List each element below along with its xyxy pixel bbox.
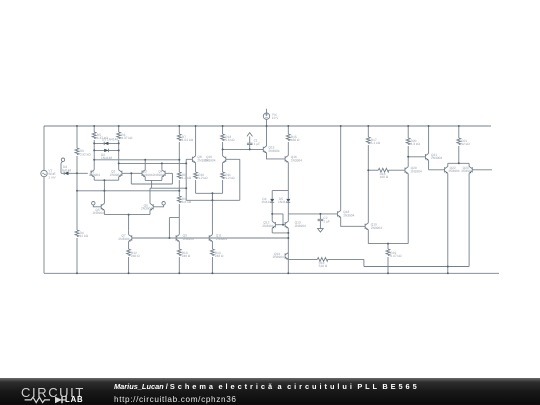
- diode D1: [94, 142, 119, 144]
- svg-text:1.2 kΩ: 1.2 kΩ: [225, 176, 235, 180]
- svg-text:0.47 kΩ: 0.47 kΩ: [390, 254, 402, 258]
- svg-text:2N3904: 2N3904: [343, 213, 354, 217]
- svg-text:2N3904: 2N3904: [89, 173, 100, 177]
- transistor Q4: [162, 170, 165, 177]
- resistor R21 top: [458, 126, 460, 138]
- transistor Q15: [263, 146, 266, 153]
- source V1: [41, 170, 47, 176]
- node VCC flag: [247, 133, 253, 137]
- transistor Q3: [142, 170, 145, 177]
- svg-text:1.2 kΩ: 1.2 kΩ: [182, 176, 192, 180]
- diode D4: [271, 191, 273, 199]
- transistor Q18: [338, 211, 341, 218]
- svg-text:12 kΩ: 12 kΩ: [461, 142, 470, 146]
- wire Q1 collector chain: [93, 143, 95, 170]
- wire D4 tap jog: [272, 214, 283, 225]
- svg-text:4.37 kΩ: 4.37 kΩ: [121, 136, 133, 140]
- diode D3: [61, 172, 88, 175]
- transistor Q12: [272, 221, 275, 228]
- transistor Q19: [365, 223, 368, 230]
- svg-text:1.01 kΩ: 1.01 kΩ: [182, 138, 194, 142]
- diode D5: [287, 191, 289, 199]
- wire Q16 emitter long drop: [287, 162, 289, 190]
- node junction dots interior: [76, 172, 78, 174]
- node junction dots top rail: [76, 125, 78, 127]
- svg-text:1 mV: 1 mV: [48, 175, 56, 179]
- svg-text:1.2 kΩ: 1.2 kΩ: [198, 176, 208, 180]
- wire R10 R11 bottom tie: [196, 193, 223, 200]
- transistor Q9: [176, 235, 179, 242]
- node VCO input port left: [92, 202, 95, 205]
- svg-text:2N3904: 2N3904: [371, 226, 382, 230]
- svg-text:2N3904: 2N3904: [118, 237, 129, 241]
- wire R9 jog to bias line: [169, 218, 179, 238]
- wire R9 to Q9 collector: [178, 218, 180, 235]
- wire bias line: [132, 237, 288, 239]
- wire Q6 collector: [149, 188, 151, 203]
- transistor Q10: [223, 156, 226, 163]
- svg-text:10 V: 10 V: [272, 116, 279, 120]
- resistor R6: [118, 126, 120, 132]
- svg-text:2N3904: 2N3904: [141, 173, 152, 177]
- wire Q3 collector: [144, 160, 146, 170]
- svg-text:2N3904: 2N3904: [411, 170, 422, 174]
- ground: [318, 229, 324, 232]
- transistor Q20: [405, 167, 408, 174]
- resistor R7: [178, 126, 180, 134]
- wire bottom ground rail: [44, 272, 499, 274]
- svg-text:5.6 kΩ: 5.6 kΩ: [225, 138, 235, 142]
- capacitor C2: [318, 214, 324, 229]
- svg-text:2N3904: 2N3904: [273, 255, 284, 259]
- wire pair collector bus: [448, 163, 469, 166]
- resistor R20 top: [407, 126, 409, 138]
- wire Q19 emitter: [368, 230, 408, 244]
- svg-text:2N3904: 2N3904: [204, 158, 215, 162]
- wire Q18 emitter to Q19 base: [341, 217, 365, 226]
- wire Q19 collector: [367, 170, 369, 223]
- resistor R10 Q8 emitter: [195, 163, 197, 172]
- capacitor C1: [247, 136, 253, 149]
- wire Q23 emitter drop: [467, 173, 470, 266]
- wire Q2 base to quad: [122, 172, 142, 174]
- resistor R8: [177, 172, 181, 179]
- svg-text:2N3904: 2N3904: [448, 169, 459, 173]
- wire Q11 collector: [211, 193, 213, 234]
- resistor R19: [387, 244, 389, 249]
- CircuitLab logo: [21, 385, 85, 400]
- wire Q23 base stub: [472, 169, 492, 171]
- wire to Q15 base: [223, 148, 264, 150]
- node IN port: [61, 158, 64, 161]
- wire quad output line: [150, 187, 186, 189]
- resistor R14 Q11 emitter: [211, 241, 213, 249]
- svg-text:1 µF: 1 µF: [323, 220, 329, 224]
- source V2 Vcc: [266, 109, 268, 126]
- wire Q18 collector to rail: [340, 126, 342, 211]
- transistor Q23: [469, 166, 472, 173]
- resistor R11 Q10 emitter: [222, 163, 224, 172]
- transistor Q8: [192, 156, 195, 163]
- wire Q20 emitter long drop: [407, 174, 409, 244]
- wire top supply rail: [44, 125, 491, 127]
- svg-text:2N3904: 2N3904: [461, 169, 472, 173]
- wire Q4 base cross jog: [131, 173, 172, 184]
- svg-text:2N3904: 2N3904: [93, 211, 104, 215]
- wire Q8 base drop: [186, 159, 192, 200]
- transistor Q13: [285, 221, 288, 228]
- wire Q21 base: [408, 156, 425, 158]
- resistor R5: [93, 126, 95, 132]
- svg-text:2N3904: 2N3904: [110, 173, 121, 177]
- svg-text:2N3904: 2N3904: [183, 237, 194, 241]
- svg-text:1N4148: 1N4148: [60, 168, 71, 172]
- wire R3 to R4: [76, 156, 78, 230]
- transistor Q14: [285, 253, 288, 260]
- resistor R4: [75, 230, 79, 237]
- wire Q1 Q2 emitter bus: [94, 177, 119, 191]
- wire Q12 Q13 base tie: [275, 224, 285, 226]
- resistor R16 horizontal: [317, 258, 327, 262]
- wire base return line: [186, 199, 240, 201]
- transistor Q7: [129, 235, 132, 242]
- svg-text:0.92 kΩ: 0.92 kΩ: [80, 152, 92, 156]
- resistor R12 Q7 emitter: [128, 241, 130, 249]
- svg-text:2N3904: 2N3904: [431, 156, 442, 160]
- wire Q12 Q13 emitter bus: [272, 228, 288, 253]
- node junction dots bottom rail: [76, 272, 78, 274]
- transistor Q16: [285, 156, 288, 163]
- diode D2: [94, 149, 119, 151]
- svg-text:5.1 kΩ: 5.1 kΩ: [371, 141, 381, 145]
- wire Q10 base jog: [226, 159, 240, 200]
- transistor Q21: [425, 153, 428, 160]
- svg-text:2N3904: 2N3904: [262, 224, 273, 228]
- svg-text:100 Ω: 100 Ω: [380, 175, 389, 179]
- wire phase output line: [288, 213, 337, 215]
- svg-text:4.3 kΩ: 4.3 kΩ: [411, 142, 421, 146]
- svg-text:240 Ω: 240 Ω: [215, 254, 224, 258]
- svg-text:1N4148: 1N4148: [278, 200, 289, 204]
- svg-text:510 Ω: 510 Ω: [319, 264, 328, 268]
- wire Q15 collector to rail: [266, 126, 268, 146]
- transistor Q11: [209, 235, 212, 242]
- svg-text:2N3904: 2N3904: [216, 237, 227, 241]
- svg-text:12 kΩ: 12 kΩ: [80, 234, 89, 238]
- wire Q14 emitter line: [288, 258, 317, 260]
- svg-text:6.8 kΩ: 6.8 kΩ: [182, 200, 192, 204]
- transistor Q6: [150, 203, 153, 210]
- wire Q21 collector to rail: [428, 126, 430, 153]
- wire Q4 collector: [161, 163, 163, 170]
- wire Q14 collector emitter drop: [287, 253, 289, 274]
- wire Q2 collector chain: [118, 143, 120, 170]
- resistor R9: [177, 196, 181, 203]
- svg-text:240 Ω: 240 Ω: [182, 254, 191, 258]
- transistor Q22: [445, 166, 448, 173]
- wire Q15 emitter to Q16 base: [267, 153, 286, 159]
- svg-text:240 Ω: 240 Ω: [131, 254, 140, 258]
- resistor R15 top: [287, 126, 289, 134]
- resistor R17 top: [367, 126, 369, 137]
- svg-text:2N3904: 2N3904: [141, 207, 152, 211]
- wire Q10 collector: [222, 149, 224, 156]
- wire node A collector line: [94, 159, 179, 161]
- svg-text:1N4148: 1N4148: [101, 156, 112, 160]
- wire Q22 emitter drop: [447, 173, 449, 273]
- wire Q13 collector: [287, 214, 289, 221]
- transistor Q5: [101, 203, 104, 210]
- resistor R13 Q9 emitter: [178, 241, 180, 249]
- wire Q5 collector: [103, 191, 105, 204]
- wire node B collector line: [119, 162, 187, 164]
- transistor Q2: [119, 170, 122, 177]
- svg-text:2N3904: 2N3904: [291, 158, 302, 162]
- wire Q7 collector: [128, 231, 130, 235]
- wire quad emitter bus: [145, 177, 162, 189]
- wire step to loop filter line: [364, 259, 469, 266]
- wire Q5 Q6 emitter bus: [104, 210, 150, 231]
- svg-text:1 µF: 1 µF: [254, 142, 260, 146]
- svg-text:2N3904: 2N3904: [153, 173, 164, 177]
- wire emitter return line: [77, 190, 179, 192]
- wire Q21 emitter: [429, 160, 445, 170]
- wire Q8 collector to rail: [195, 126, 197, 156]
- wire diode tee: [272, 190, 288, 192]
- svg-text:2N3904: 2N3904: [268, 149, 279, 153]
- transistor Q1: [91, 170, 94, 177]
- svg-text:460 Ω: 460 Ω: [291, 138, 300, 142]
- wire left edge vertical: [43, 126, 45, 273]
- node VCO input port right: [162, 202, 165, 205]
- svg-text:2N3904: 2N3904: [295, 224, 306, 228]
- resistor R18 horizontal: [368, 169, 378, 171]
- svg-text:D1 1N4148: D1 1N4148: [102, 138, 118, 142]
- svg-text:1N4148: 1N4148: [261, 200, 272, 204]
- resistor R13b top chain: [222, 126, 224, 134]
- resistor R3: [76, 126, 78, 148]
